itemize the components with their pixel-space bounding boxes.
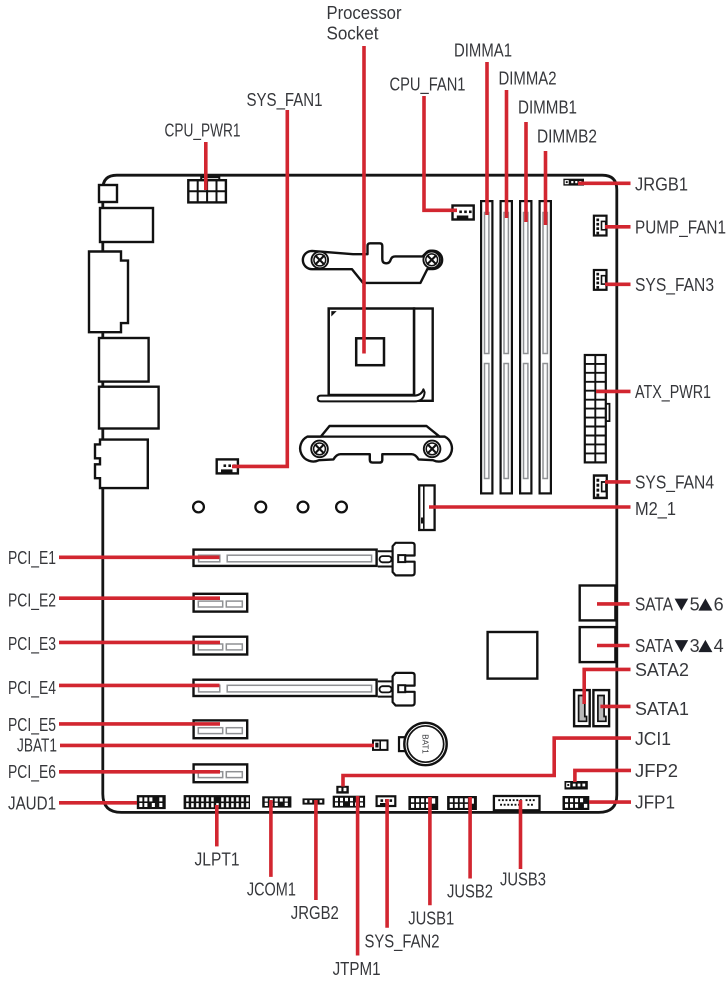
svg-text:PCI_E6: PCI_E6: [8, 762, 56, 783]
svg-text:JUSB2: JUSB2: [447, 881, 493, 901]
io port USB top: [100, 208, 153, 242]
svg-text:PCI_E2: PCI_E2: [8, 590, 56, 611]
line PCI_E6: [59, 770, 220, 774]
svg-text:SATA: SATA: [635, 594, 673, 614]
chipset: [488, 632, 538, 679]
label SATA 3/4: [635, 636, 724, 656]
PCI_E1 slot: [194, 550, 377, 566]
svg-text:JLPT1: JLPT1: [195, 849, 240, 869]
line M2_1: [429, 505, 631, 509]
line Processor Socket: [362, 46, 366, 354]
DIMM slot DIMMA1: [481, 201, 492, 493]
line SYS_FAN4: [605, 480, 631, 484]
DIMM slot DIMMB2: [540, 201, 551, 493]
line JBAT1: [60, 744, 374, 748]
cpu retention bracket bottom: [300, 426, 452, 463]
io port LAN: [99, 338, 149, 382]
line JRGB1: [578, 182, 631, 186]
SYS_FAN4 connector: [594, 476, 607, 498]
line JUSB2: [468, 797, 472, 879]
svg-text:PCI_E4: PCI_E4: [8, 678, 56, 699]
line JTPM1: [356, 796, 360, 956]
svg-text:4: 4: [714, 636, 724, 656]
svg-text:SYS_FAN2: SYS_FAN2: [365, 931, 440, 952]
JUSB3 connector: [494, 796, 540, 810]
SATA 5/6 box: [580, 586, 616, 621]
PCI_E1 latch: [378, 543, 415, 576]
svg-text:JRGB1: JRGB1: [635, 174, 688, 194]
line PCI_E3: [59, 641, 220, 645]
mounting hole 3: [298, 502, 309, 513]
line PUMP_FAN1: [605, 225, 631, 229]
line JFP1: [589, 800, 631, 804]
svg-text:3: 3: [690, 636, 700, 656]
svg-text:JFP1: JFP1: [635, 792, 675, 812]
mounting hole 2: [255, 502, 266, 513]
svg-text:SATA1: SATA1: [635, 699, 689, 719]
CPU_FAN1 connector: [453, 206, 474, 220]
line SATA 3/4: [597, 644, 630, 648]
svg-text:SYS_FAN4: SYS_FAN4: [635, 472, 714, 493]
line PCI_E2: [59, 596, 220, 600]
line JCI1: [343, 736, 631, 786]
M2_1 connector: [419, 485, 434, 530]
svg-text:JCI1: JCI1: [635, 729, 671, 749]
svg-text:SATA: SATA: [635, 636, 673, 656]
svg-text:JTPM1: JTPM1: [333, 959, 381, 979]
svg-text:5: 5: [690, 594, 700, 614]
mounting hole 4: [336, 502, 347, 513]
line SYS_FAN3: [605, 282, 631, 286]
PCI_E3 slot: [194, 637, 248, 655]
JAUD1 connector: [137, 795, 166, 809]
PCI_E6 slot: [194, 764, 248, 782]
SATA2 connector: [574, 690, 590, 726]
svg-text:JRGB2: JRGB2: [291, 903, 339, 923]
svg-text:JAUD1: JAUD1: [8, 793, 56, 813]
line PCI_E5: [59, 722, 220, 726]
svg-text:DIMMA2: DIMMA2: [499, 68, 557, 88]
svg-text:M2_1: M2_1: [635, 499, 676, 520]
line DIMMA1: [485, 62, 489, 215]
PCI_E4 slot: [194, 680, 377, 696]
io port audio: [95, 440, 148, 489]
processor socket: [318, 309, 433, 402]
io port USB bottom: [99, 387, 159, 429]
line JUSB3: [519, 800, 523, 869]
svg-text:DIMMB2: DIMMB2: [537, 126, 597, 146]
line CPU_FAN1: [422, 96, 457, 210]
ATX_PWR1 connector: [585, 355, 610, 462]
svg-text:PUMP_FAN1: PUMP_FAN1: [635, 217, 726, 238]
JTPM1 connector: [333, 796, 365, 808]
DIMM slot DIMMA2: [501, 201, 512, 493]
svg-text:SYS_FAN1: SYS_FAN1: [247, 90, 323, 111]
svg-text:JUSB1: JUSB1: [408, 908, 454, 928]
line JFP2: [575, 769, 631, 782]
SATA 3/4 box: [580, 627, 616, 662]
mounting hole 1: [193, 502, 204, 513]
JRGB1 connector: [563, 179, 584, 186]
svg-text:CPU_PWR1: CPU_PWR1: [165, 120, 241, 141]
line CPU_PWR1: [204, 142, 208, 190]
SYS_FAN3 connector: [594, 270, 607, 290]
line DIMMB1: [524, 122, 528, 222]
JLPT1 connector: [184, 795, 250, 809]
line SYS_FAN1: [232, 110, 289, 466]
SATA1 connector: [593, 690, 609, 726]
line DIMMB2: [544, 151, 548, 225]
line JUSB1: [428, 797, 432, 905]
JRGB2 connector: [303, 798, 325, 804]
svg-text:CPU_FAN1: CPU_FAN1: [390, 74, 466, 95]
PCI_E2 slot: [194, 594, 248, 612]
DIMM slot DIMMB1: [520, 201, 531, 493]
JFP2 connector: [565, 781, 588, 790]
PCI_E4 latch: [378, 673, 415, 706]
line SATA2: [582, 669, 630, 704]
JBAT1 connector: [373, 740, 388, 750]
PCI_E5 slot: [194, 720, 248, 738]
svg-text:6: 6: [714, 594, 724, 614]
label SATA 5/6: [635, 594, 724, 614]
svg-text:Socket: Socket: [327, 24, 379, 44]
cpu retention bracket top: [303, 243, 442, 283]
JUSB1 connector: [408, 796, 438, 810]
line JRGB2: [314, 800, 318, 900]
svg-text:PCI_E1: PCI_E1: [8, 548, 56, 569]
line PCI_E1: [59, 555, 220, 559]
svg-text:JBAT1: JBAT1: [17, 735, 57, 755]
JCI1 connector: [336, 786, 349, 794]
board outline: [103, 175, 617, 812]
line JAUD1: [59, 801, 137, 805]
svg-text:SATA2: SATA2: [635, 660, 689, 680]
svg-text:PCI_E3: PCI_E3: [8, 634, 56, 655]
PUMP_FAN1 connector: [594, 216, 607, 236]
line JLPT1: [215, 805, 219, 846]
svg-text:ATX_PWR1: ATX_PWR1: [635, 382, 711, 403]
battery BAT1: [399, 723, 447, 765]
io port PS/2: [99, 185, 117, 202]
svg-text:SYS_FAN3: SYS_FAN3: [635, 275, 714, 296]
callout lines red: [59, 46, 631, 956]
svg-text:BAT1: BAT1: [421, 734, 430, 754]
line PCI_E4: [59, 684, 220, 688]
svg-text:DIMMB1: DIMMB1: [518, 97, 577, 117]
JUSB2 connector: [447, 796, 477, 810]
SYS_FAN2 connector: [377, 796, 396, 806]
svg-text:PCI_E5: PCI_E5: [8, 715, 56, 736]
line SYS_FAN2: [385, 799, 389, 928]
SYS_FAN1 connector: [217, 459, 238, 473]
line JCOM1: [269, 800, 273, 877]
svg-text:DIMMA1: DIMMA1: [454, 40, 512, 60]
CPU_PWR1 connector: [188, 177, 226, 202]
svg-text:JCOM1: JCOM1: [247, 879, 296, 899]
io port DVI: [89, 252, 128, 333]
line SATA 5/6: [597, 602, 630, 606]
line SATA1: [600, 705, 630, 709]
svg-text:Processor: Processor: [327, 3, 402, 23]
svg-text:JFP2: JFP2: [635, 761, 678, 781]
JCOM1 connector: [262, 796, 291, 807]
line DIMMA2: [505, 90, 509, 218]
JFP1 connector: [563, 796, 590, 810]
line ATX_PWR1: [596, 390, 631, 394]
svg-text:JUSB3: JUSB3: [500, 869, 546, 889]
